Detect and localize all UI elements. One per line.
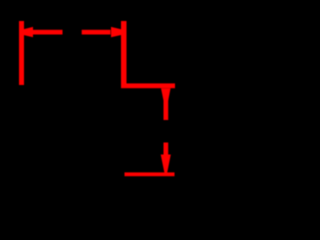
vertical dimension lower stem	[164, 143, 169, 157]
bottom extension line	[125, 172, 175, 176]
vertical dimension down arrowhead	[161, 155, 171, 173]
top dimension left line segment	[33, 30, 63, 35]
top dimension right line segment	[82, 30, 111, 35]
vertical dimension upper stem	[164, 99, 169, 120]
top dimension left arrowhead	[24, 27, 34, 37]
left extension bar	[19, 21, 24, 85]
right extension bar	[121, 21, 127, 85]
top dimension right arrowhead	[111, 27, 121, 37]
middle extension line	[121, 83, 175, 88]
vertical dimension up arrowhead	[161, 88, 171, 100]
